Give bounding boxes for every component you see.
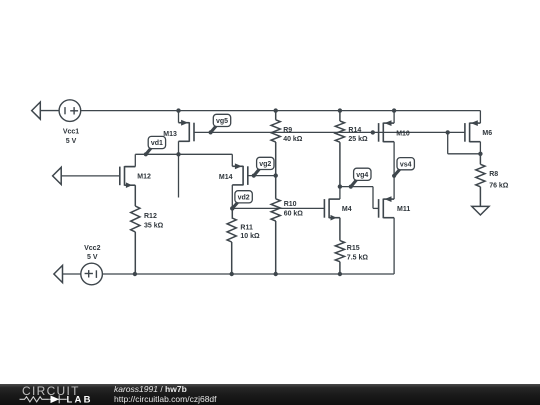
flag vg2 [254,168,260,175]
ground (left-pointing) for Vcc1 negative terminal [32,102,60,119]
transistor M13 (PMOS, mirrored, gate right) [179,122,195,142]
node: bottom rail junction dots at R12, R11, R10, R15 [133,272,137,276]
svg-text:35 kΩ: 35 kΩ [144,222,164,229]
transistor M6 (PMOS, gate left) [465,123,481,143]
node: M6 drain junction (R8 top) [478,152,482,156]
transistor M11 (PMOS-style arrow, gate left) [379,199,395,219]
svg-text:M14: M14 [219,174,233,181]
flag vd1 [146,147,151,154]
wire: M13 source to top rail [178,111,180,123]
node: M6 gate feedback junction on vg5 wire [446,130,450,134]
svg-text:vs4: vs4 [400,161,412,168]
wire: ground to Vcc2 [63,273,82,275]
svg-text:Vcc1: Vcc1 [63,129,79,136]
wire: bottom rail from Vcc2 to M11 source [103,273,394,275]
svg-text:vg4: vg4 [356,172,368,179]
flag vg4 [351,179,357,186]
node: top rail junction dots at M13, R9, R14, M10 [176,108,180,112]
svg-text:LAB: LAB [67,395,93,405]
svg-text:40 kΩ: 40 kΩ [283,136,303,143]
svg-text:7.5 kΩ: 7.5 kΩ [347,254,369,261]
svg-text:R14: R14 [348,127,361,134]
transistor M4 (NMOS, gate left) [324,199,340,219]
svg-text:M6: M6 [482,130,492,137]
voltage source Vcc2 [81,263,103,285]
ground (down-pointing) under R8 [472,206,489,215]
wire: M10 source to top rail [393,111,395,124]
voltage source Vcc1 [59,100,81,122]
resistor R10 [271,176,280,274]
resistor R12 [131,185,140,274]
node: M10 gate junction on vg5 wire [371,130,375,134]
svg-text:M13: M13 [163,131,177,138]
CircuitLab logo [15,384,125,405]
svg-text:5 V: 5 V [66,138,77,145]
resistor R8 [476,154,485,206]
svg-text:vd1: vd1 [151,140,163,147]
wire: vg5 net - M13 gate across to M6 gate [194,131,465,133]
svg-text:R10: R10 [284,201,297,208]
wire: M12 drain up to node vd1 [125,166,136,168]
wire: vg4 node to M11 gate [340,187,379,209]
resistor R9 [271,111,280,176]
svg-text:5 V: 5 V [87,254,98,261]
svg-text:R8: R8 [489,171,498,178]
flag vg5 [211,125,217,132]
ground (left-pointing) for Vcc2 positive terminal [54,265,63,282]
wire: M4 drain up to vg4 node [339,187,341,200]
flag vd2 [233,202,239,208]
wire: M14 drain down to node vd2 [231,185,233,209]
wire: M10 drain down to M11 [393,142,395,199]
svg-text:M10: M10 [396,130,410,137]
transistor M14 (PMOS, mirrored, gate right) [232,166,248,186]
wire: node vd1 to M14 source [179,154,233,166]
wire: M6 drain to node and feedback to gate [448,132,481,153]
wire: top rail from Vcc1 to M6 [81,111,481,124]
svg-text:M12: M12 [137,173,151,180]
svg-text:25 kΩ: 25 kΩ [348,136,368,143]
svg-text:76 kΩ: 76 kΩ [489,182,509,189]
node: junction R9/R10/M14 gate (vg2 net) [274,173,278,177]
wire: M14 gate to R9/R10 node [248,175,276,177]
svg-text:Vcc2: Vcc2 [84,245,100,252]
flag vs4 [395,169,401,176]
transistor M12 (NMOS, gate left) [120,166,136,186]
resistor R14 [335,111,344,187]
node: vg4 junction (R14, M4 drain, M11 gate wire) [338,184,342,188]
node: vd2 junction (M14 drain, R11, M4 gate wire) [230,206,234,210]
svg-text:10 kΩ: 10 kΩ [240,233,260,240]
svg-text:M4: M4 [342,206,352,213]
resistor R11 [227,208,236,274]
svg-text:vg5: vg5 [216,118,228,125]
svg-text:vg2: vg2 [259,161,271,168]
wire: M11 source down to bottom rail [393,218,395,274]
svg-text:R9: R9 [283,127,292,134]
svg-text:R11: R11 [240,224,253,231]
transistor M10 (PMOS, gate left) [379,123,395,143]
wire: M13 drain down through node to dangling stub [178,141,180,197]
svg-text:60 kΩ: 60 kΩ [284,210,304,217]
svg-text:M11: M11 [397,206,410,213]
wire: vd2 node to M4 gate [232,207,324,209]
svg-text:R12: R12 [144,213,157,220]
svg-text:R15: R15 [347,245,360,252]
resistor R15 [335,218,344,274]
svg-text:vd2: vd2 [238,194,250,201]
ground (left-pointing) at input to M12 gate [53,167,62,184]
wire: input ground to M12 gate [61,175,120,177]
node: junction of M12 drain, M13 drain, M14 source (vd1 net) [176,152,180,156]
